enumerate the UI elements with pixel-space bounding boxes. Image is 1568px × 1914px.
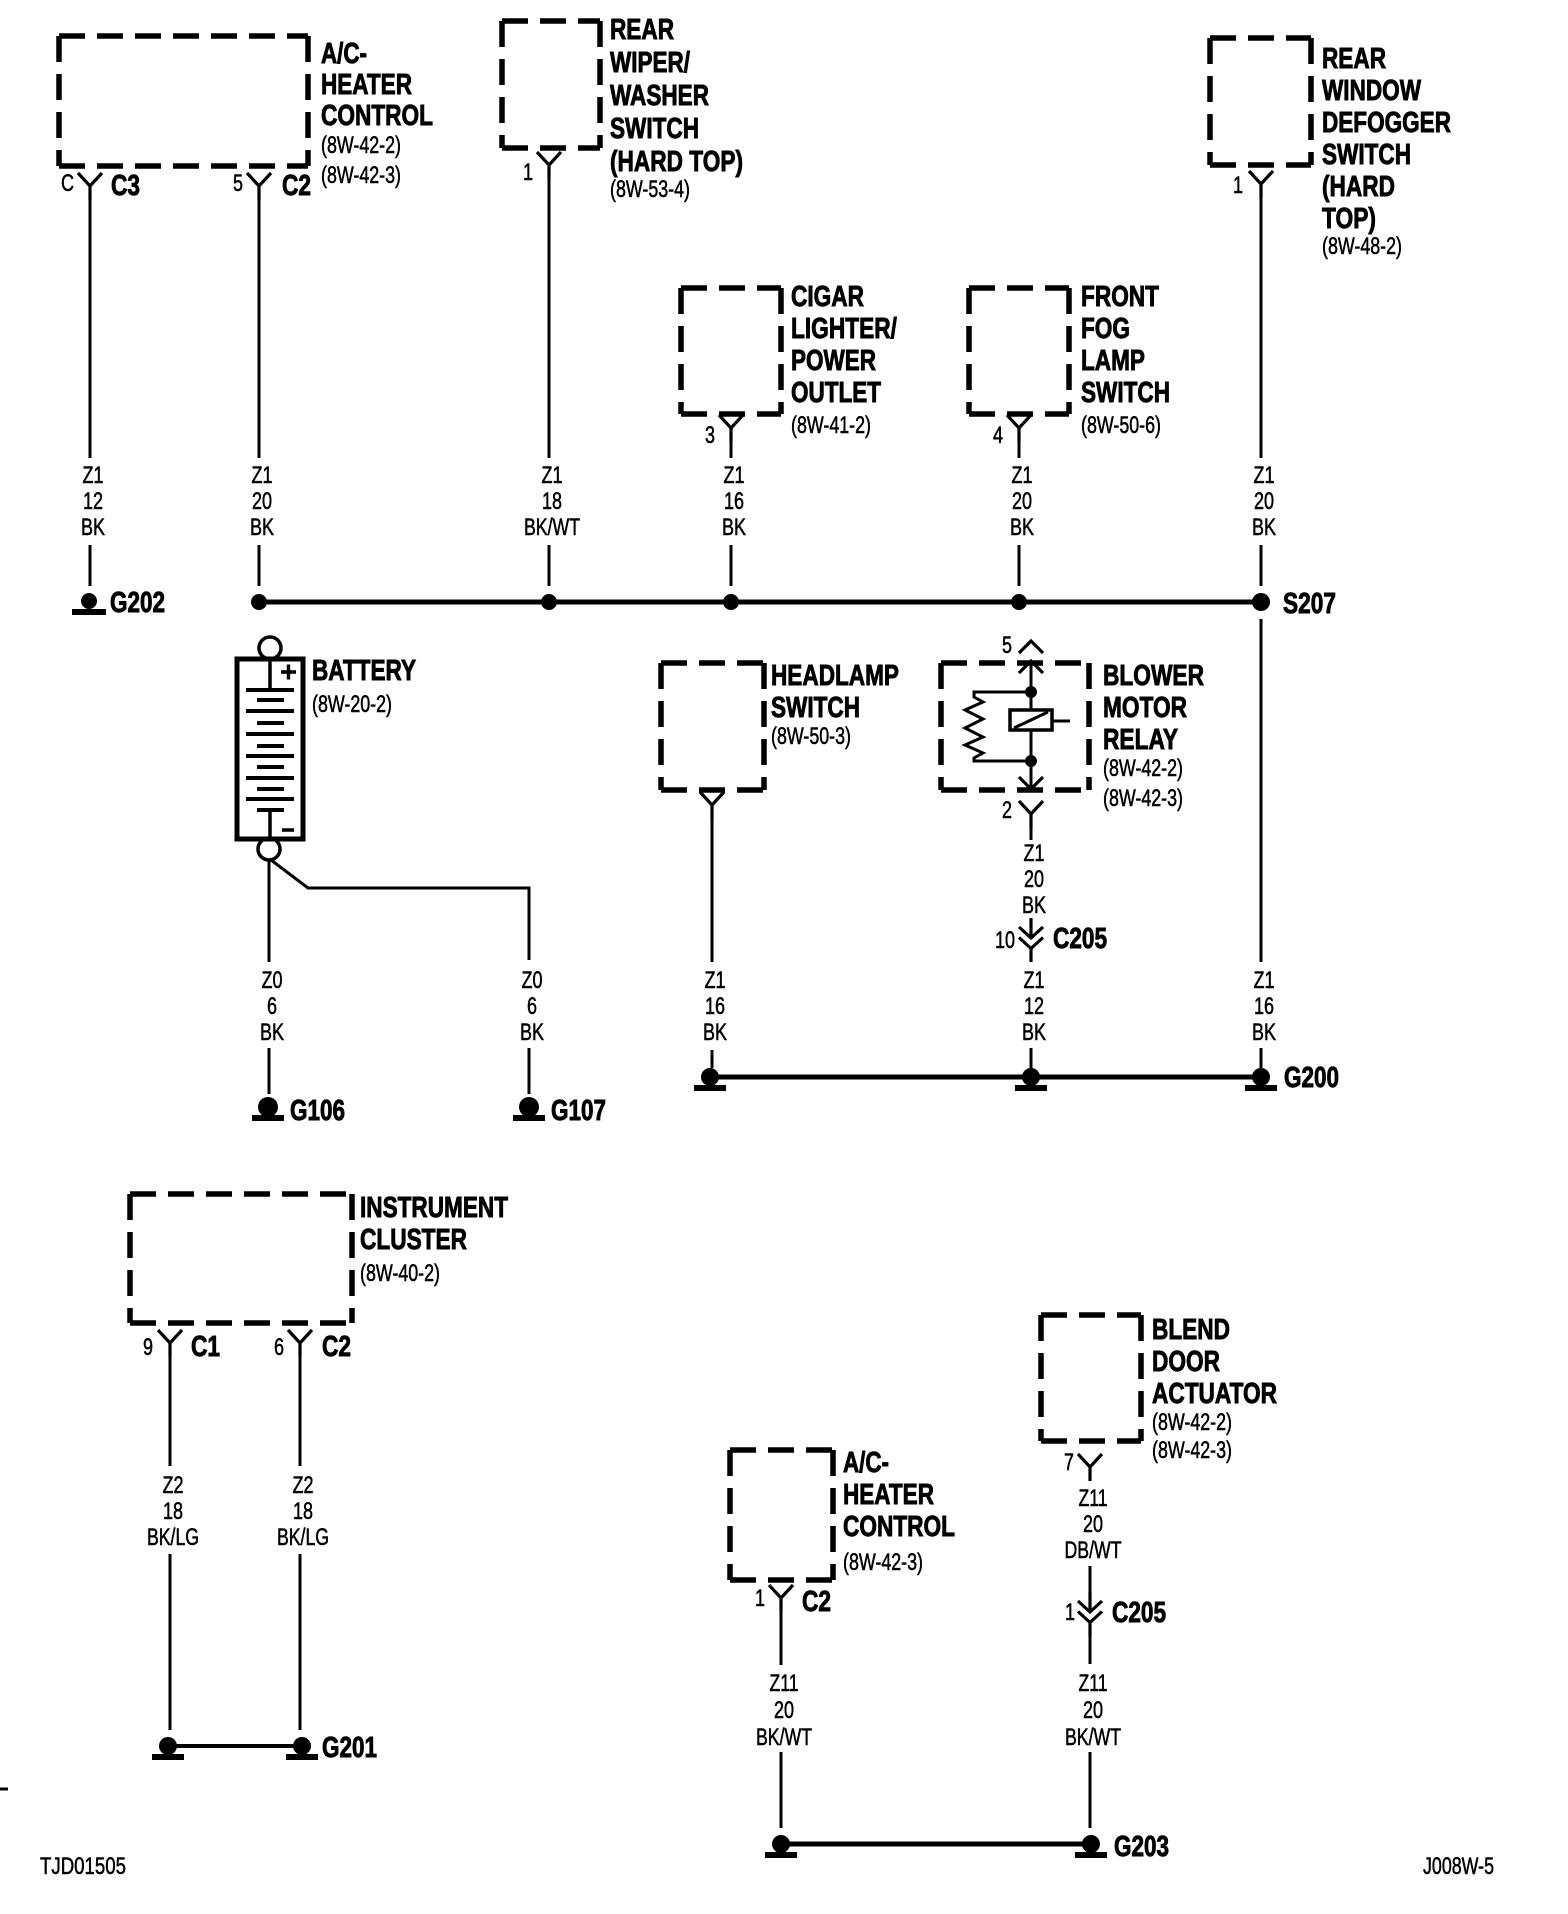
svg-text:20: 20 xyxy=(1012,488,1032,515)
svg-text:12: 12 xyxy=(83,488,103,515)
svg-text:TJD01505: TJD01505 xyxy=(40,1853,126,1880)
svg-text:DEFOGGER: DEFOGGER xyxy=(1322,107,1451,139)
svg-text:HEADLAMP: HEADLAMP xyxy=(771,660,899,692)
ground G203 xyxy=(1082,1835,1100,1853)
svg-text:(8W-41-2): (8W-41-2) xyxy=(791,412,871,439)
svg-text:C2: C2 xyxy=(282,170,311,202)
front fog lamp switch box xyxy=(969,288,1069,414)
wire Z1 at x=259 xyxy=(258,200,261,458)
svg-text:(8W-42-3): (8W-42-3) xyxy=(843,1549,923,1576)
svg-text:LAMP: LAMP xyxy=(1081,345,1145,377)
svg-text:(8W-50-3): (8W-50-3) xyxy=(771,723,851,750)
svg-text:Z11: Z11 xyxy=(1079,1670,1108,1697)
svg-text:C3: C3 xyxy=(111,170,140,202)
splice S207 xyxy=(1252,593,1270,611)
svg-text:C205: C205 xyxy=(1112,1597,1166,1629)
wire relay to C205 xyxy=(1030,828,1033,840)
battery B1 xyxy=(237,637,303,860)
wire Z1 at x=1019 xyxy=(1018,442,1021,458)
connector (cigar lighter) xyxy=(719,415,743,442)
svg-text:2: 2 xyxy=(1002,797,1012,824)
ground bus G203 xyxy=(781,1842,1091,1847)
svg-text:Z1: Z1 xyxy=(252,462,273,489)
headlamp switch box xyxy=(661,663,764,790)
svg-text:9: 9 xyxy=(143,1334,153,1361)
svg-text:CIGAR: CIGAR xyxy=(791,281,864,313)
svg-text:Z1: Z1 xyxy=(1254,967,1275,994)
ground G107 xyxy=(519,1097,539,1117)
svg-text:BK: BK xyxy=(81,514,105,541)
svg-text:BK: BK xyxy=(1022,1019,1046,1046)
svg-text:16: 16 xyxy=(724,488,744,515)
svg-text:7: 7 xyxy=(1064,1449,1074,1476)
svg-text:4: 4 xyxy=(993,422,1003,449)
svg-text:WIPER/: WIPER/ xyxy=(610,47,690,79)
A/C-heater control (bottom) box xyxy=(730,1450,833,1580)
relay junction dot top xyxy=(1025,686,1037,698)
svg-text:Z1: Z1 xyxy=(705,967,726,994)
svg-text:Z1: Z1 xyxy=(1254,462,1275,489)
wire Z1 at x=1261 xyxy=(1260,196,1263,458)
svg-text:INSTRUMENT: INSTRUMENT xyxy=(360,1192,508,1224)
relay internal wire from pin 5 xyxy=(1030,661,1033,710)
svg-text:BLEND: BLEND xyxy=(1152,1314,1230,1346)
svg-text:6: 6 xyxy=(267,993,277,1020)
connector (wiper switch) xyxy=(537,152,561,179)
svg-text:MOTOR: MOTOR xyxy=(1103,692,1187,724)
svg-text:G202: G202 xyxy=(110,587,165,619)
svg-text:FRONT: FRONT xyxy=(1081,281,1159,313)
svg-text:BK: BK xyxy=(722,514,746,541)
svg-text:J008W-5: J008W-5 xyxy=(1423,1853,1494,1880)
svg-text:BK: BK xyxy=(520,1019,544,1046)
wire Z1 at x=731 xyxy=(730,442,733,458)
svg-text:(8W-42-2): (8W-42-2) xyxy=(1152,1409,1232,1436)
svg-text:LIGHTER/: LIGHTER/ xyxy=(791,313,897,345)
wire Z2 at x=300 xyxy=(299,1357,302,1466)
connector C2 (A/C-heater control bottom) xyxy=(769,1585,793,1612)
svg-text:A/C-: A/C- xyxy=(321,38,367,70)
svg-text:CLUSTER: CLUSTER xyxy=(360,1224,467,1256)
svg-text:SWITCH: SWITCH xyxy=(610,113,699,145)
svg-text:SWITCH: SWITCH xyxy=(1322,139,1411,171)
svg-text:G201: G201 xyxy=(322,1732,377,1764)
svg-text:10: 10 xyxy=(995,927,1015,954)
ground bus G200 xyxy=(710,1075,1261,1080)
svg-text:(HARD TOP): (HARD TOP) xyxy=(610,146,743,178)
svg-text:16: 16 xyxy=(705,993,725,1020)
svg-text:Z1: Z1 xyxy=(83,462,104,489)
svg-text:6: 6 xyxy=(527,993,537,1020)
svg-text:BK: BK xyxy=(1252,1019,1276,1046)
svg-text:Z11: Z11 xyxy=(770,1670,799,1697)
svg-text:Z1: Z1 xyxy=(724,462,745,489)
instrument cluster box xyxy=(130,1194,352,1323)
relay internal wire to pin 2 xyxy=(1030,730,1033,789)
svg-text:BATTERY: BATTERY xyxy=(312,655,416,687)
wire Z2 at x=170 xyxy=(169,1357,172,1466)
svg-text:1: 1 xyxy=(1065,1599,1075,1626)
svg-text:CONTROL: CONTROL xyxy=(321,100,433,132)
svg-text:20: 20 xyxy=(774,1697,794,1724)
wire C205 to G203 xyxy=(1089,1636,1092,1664)
svg-text:REAR: REAR xyxy=(610,14,674,46)
svg-text:ACTUATOR: ACTUATOR xyxy=(1152,1378,1277,1410)
svg-text:Z1: Z1 xyxy=(1024,967,1045,994)
rear wiper/washer switch box xyxy=(502,21,600,148)
svg-text:G200: G200 xyxy=(1284,1062,1339,1094)
svg-text:HEATER: HEATER xyxy=(843,1479,934,1511)
connector (headlamp switch) xyxy=(700,792,724,819)
relay coil lead xyxy=(1052,720,1070,723)
splice dot xyxy=(541,594,557,610)
svg-text:BK/WT: BK/WT xyxy=(756,1724,812,1751)
svg-text:(8W-40-2): (8W-40-2) xyxy=(360,1260,440,1287)
svg-text:BK: BK xyxy=(703,1019,727,1046)
connector C2 (A/C-heater control) xyxy=(247,173,271,200)
wire A/C-heater control to G203 xyxy=(780,1612,783,1665)
wire battery negative to G107 xyxy=(271,860,529,960)
svg-text:DB/WT: DB/WT xyxy=(1065,1537,1122,1564)
svg-text:REAR: REAR xyxy=(1322,43,1386,75)
svg-text:20: 20 xyxy=(1254,488,1274,515)
svg-text:BK/WT: BK/WT xyxy=(1065,1724,1121,1751)
svg-text:3: 3 xyxy=(705,422,715,449)
svg-text:WASHER: WASHER xyxy=(610,80,709,112)
resistor (relay suppression) xyxy=(965,692,1031,761)
svg-text:SWITCH: SWITCH xyxy=(771,692,860,724)
svg-text:BK: BK xyxy=(1252,514,1276,541)
svg-text:BK: BK xyxy=(250,514,274,541)
svg-text:POWER: POWER xyxy=(791,345,876,377)
cigar lighter/power outlet box xyxy=(681,288,781,414)
svg-text:BK/LG: BK/LG xyxy=(277,1524,329,1551)
relay pin 5 terminal chevrons xyxy=(1019,641,1043,653)
svg-text:C1: C1 xyxy=(191,1331,220,1363)
ground bus G201 xyxy=(168,1744,302,1748)
ground G201 xyxy=(293,1737,311,1755)
svg-text:BK/WT: BK/WT xyxy=(524,514,580,541)
svg-text:1: 1 xyxy=(523,159,533,186)
ground point (C1 branch) xyxy=(159,1737,177,1755)
wire battery negative to G106 xyxy=(268,860,271,962)
relay pin 2 terminal chevron xyxy=(1019,777,1043,789)
connector (relay pin 2) xyxy=(1019,801,1043,828)
svg-text:18: 18 xyxy=(293,1498,313,1525)
svg-text:Z1: Z1 xyxy=(1024,840,1045,867)
splice dot xyxy=(251,594,267,610)
svg-text:Z2: Z2 xyxy=(293,1472,314,1499)
svg-text:16: 16 xyxy=(1254,993,1274,1020)
svg-text:Z2: Z2 xyxy=(163,1472,184,1499)
svg-text:20: 20 xyxy=(1083,1697,1103,1724)
svg-text:Z1: Z1 xyxy=(542,462,563,489)
svg-text:12: 12 xyxy=(1024,993,1044,1020)
svg-text:G106: G106 xyxy=(290,1095,345,1127)
svg-text:(8W-42-2): (8W-42-2) xyxy=(1103,755,1183,782)
svg-text:BK: BK xyxy=(1010,514,1034,541)
svg-text:(8W-50-6): (8W-50-6) xyxy=(1081,412,1161,439)
wire Z1 at x=549 xyxy=(548,179,551,458)
svg-text:BK: BK xyxy=(260,1019,284,1046)
svg-text:(8W-42-3): (8W-42-3) xyxy=(1103,785,1183,812)
rear window defogger switch box xyxy=(1210,38,1311,165)
svg-text:G107: G107 xyxy=(551,1095,606,1127)
svg-text:G203: G203 xyxy=(1114,1831,1169,1863)
blend door actuator box xyxy=(1041,1315,1141,1441)
svg-text:20: 20 xyxy=(1024,866,1044,893)
wire Z1 at x=90 xyxy=(89,200,92,458)
wire S207 to G200 xyxy=(1260,619,1263,962)
connector (fog lamp switch) xyxy=(1007,415,1031,442)
svg-text:C2: C2 xyxy=(322,1331,351,1363)
svg-text:BK/LG: BK/LG xyxy=(147,1524,199,1551)
connector C205 (blend door branch) xyxy=(1088,1592,1091,1612)
svg-text:TOP): TOP) xyxy=(1322,203,1376,235)
svg-text:C205: C205 xyxy=(1053,923,1107,955)
svg-text:BLOWER: BLOWER xyxy=(1103,660,1204,692)
wire headlamp to G200 xyxy=(711,819,714,962)
ground bus wire to S207 xyxy=(259,600,1261,605)
blower motor relay box xyxy=(941,663,1089,790)
svg-text:S207: S207 xyxy=(1283,588,1336,620)
left edge tick xyxy=(0,1788,8,1791)
A/C-heater control (top) box xyxy=(59,36,308,166)
svg-text:6: 6 xyxy=(274,1334,284,1361)
svg-text:WINDOW: WINDOW xyxy=(1322,75,1421,107)
ground G202 xyxy=(81,593,97,609)
svg-text:20: 20 xyxy=(1083,1511,1103,1538)
svg-text:BK: BK xyxy=(1022,892,1046,919)
svg-text:18: 18 xyxy=(163,1498,183,1525)
svg-text:A/C-: A/C- xyxy=(843,1447,889,1479)
svg-text:CONTROL: CONTROL xyxy=(843,1511,955,1543)
connector C2 (instrument cluster) xyxy=(288,1330,312,1357)
ground G106 xyxy=(258,1097,278,1117)
svg-text:DOOR: DOOR xyxy=(1152,1346,1220,1378)
svg-text:RELAY: RELAY xyxy=(1103,724,1178,756)
svg-text:5: 5 xyxy=(233,170,243,197)
svg-text:(8W-53-4): (8W-53-4) xyxy=(610,176,690,203)
svg-text:1: 1 xyxy=(1233,172,1243,199)
svg-text:(8W-48-2): (8W-48-2) xyxy=(1322,233,1402,260)
svg-text:C2: C2 xyxy=(802,1586,831,1618)
svg-text:C: C xyxy=(61,170,74,197)
svg-text:SWITCH: SWITCH xyxy=(1081,377,1170,409)
ground point (A/C-heater control) xyxy=(772,1835,790,1853)
svg-text:20: 20 xyxy=(252,488,272,515)
svg-text:(8W-42-3): (8W-42-3) xyxy=(321,162,401,189)
svg-text:18: 18 xyxy=(542,488,562,515)
connector C205 (relay branch) xyxy=(1029,918,1032,938)
svg-text:(HARD: (HARD xyxy=(1322,171,1395,203)
connector C1 (instrument cluster) xyxy=(158,1330,182,1357)
ground point (headlamp) xyxy=(701,1068,719,1086)
ground point (relay) xyxy=(1022,1068,1040,1086)
svg-text:1: 1 xyxy=(755,1585,765,1612)
svg-text:(8W-20-2): (8W-20-2) xyxy=(312,691,392,718)
svg-text:Z0: Z0 xyxy=(262,967,283,994)
splice dot xyxy=(723,594,739,610)
svg-text:(8W-42-3): (8W-42-3) xyxy=(1152,1437,1232,1464)
svg-text:FOG: FOG xyxy=(1081,313,1130,345)
connector C3 xyxy=(78,173,102,200)
connector (defogger switch) xyxy=(1249,171,1273,198)
connector (blend door actuator) xyxy=(1078,1454,1102,1481)
svg-text:Z1: Z1 xyxy=(1012,462,1033,489)
relay junction dot bottom xyxy=(1025,755,1037,767)
relay coil xyxy=(1010,710,1052,730)
svg-text:Z0: Z0 xyxy=(522,967,543,994)
svg-text:OUTLET: OUTLET xyxy=(791,377,881,409)
battery + terminal mark xyxy=(281,665,296,680)
svg-text:(8W-42-2): (8W-42-2) xyxy=(321,132,401,159)
svg-text:5: 5 xyxy=(1002,632,1012,659)
splice dot xyxy=(1011,594,1027,610)
svg-text:Z11: Z11 xyxy=(1079,1485,1108,1512)
ground G200 xyxy=(1252,1068,1270,1086)
svg-text:HEATER: HEATER xyxy=(321,69,412,101)
